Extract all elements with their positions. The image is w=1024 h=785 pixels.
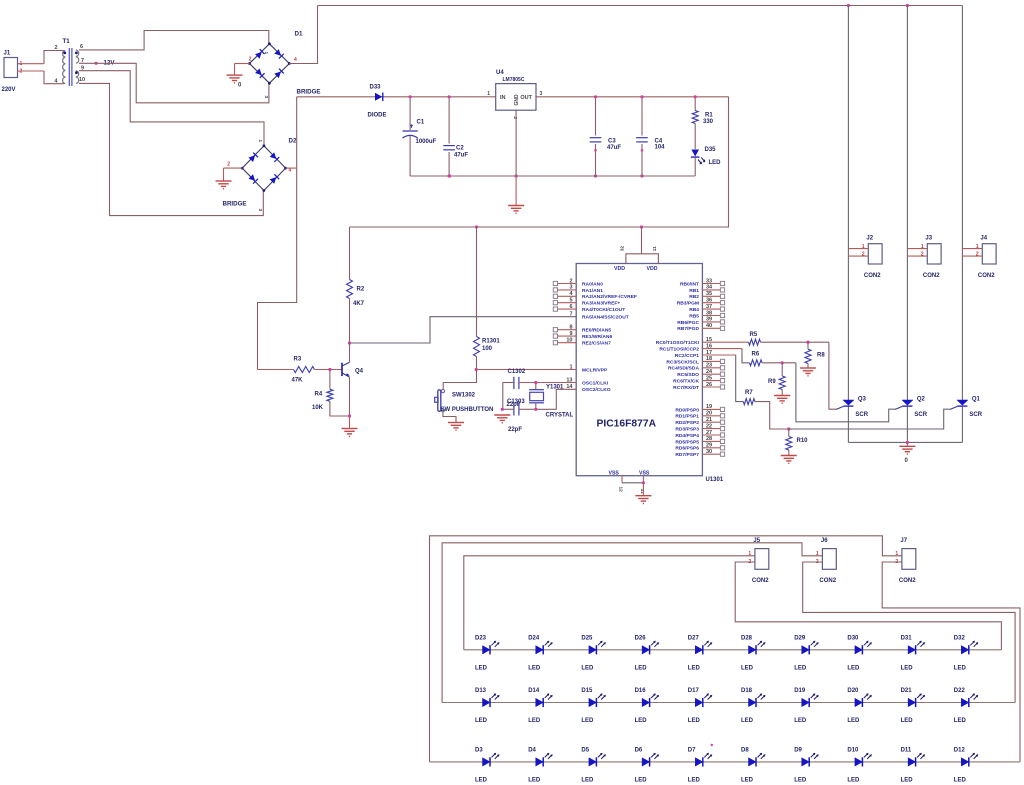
svg-text:J1: J1: [4, 51, 11, 57]
ground: [774, 395, 790, 397]
svg-text:37: 37: [706, 304, 712, 310]
transistor Q4: [341, 363, 343, 376]
svg-text:RD3/PSP3: RD3/PSP3: [675, 427, 699, 433]
svg-text:RA0/AN0: RA0/AN0: [582, 281, 603, 287]
svg-text:LED: LED: [688, 665, 701, 671]
svg-text:D27: D27: [688, 635, 700, 641]
svg-text:D32: D32: [954, 635, 966, 641]
svg-text:2: 2: [55, 45, 58, 51]
wire - +12V rail: [297, 96, 496, 98]
svg-text:6: 6: [569, 304, 572, 310]
wire: [286, 167, 297, 169]
LED D3: [483, 758, 491, 766]
svg-text:LED: LED: [475, 777, 488, 783]
svg-text:1000uF: 1000uF: [416, 139, 437, 145]
svg-text:Q3: Q3: [858, 397, 867, 403]
svg-text:20: 20: [706, 411, 712, 417]
svg-text:RB5: RB5: [689, 313, 699, 319]
wire: [44, 51, 64, 64]
LED D15: [589, 698, 597, 706]
svg-text:RA5/AN4/SS/C2OUT: RA5/AN4/SS/C2OUT: [582, 315, 629, 321]
ground: [781, 455, 797, 457]
wire - net A to J7: [430, 536, 902, 762]
pin 10 RE2/CS/AN7: [558, 342, 577, 344]
svg-text:LED: LED: [901, 777, 914, 783]
svg-text:R8: R8: [817, 353, 825, 359]
svg-text:10: 10: [79, 77, 85, 83]
svg-text:DIODE: DIODE: [368, 113, 387, 119]
ground 0: [906, 442, 908, 446]
wire - gate Q3: [829, 342, 837, 409]
wire - VDD feed: [350, 97, 729, 227]
svg-text:R10: R10: [797, 438, 809, 444]
svg-text:SW1302: SW1302: [452, 393, 476, 399]
svg-text:2: 2: [227, 162, 230, 168]
svg-text:1: 1: [862, 244, 865, 250]
svg-text:BRIDGE: BRIDGE: [223, 201, 247, 208]
pin 5 RA3/AN3/VREF+: [558, 302, 577, 304]
svg-text:LED: LED: [847, 718, 860, 724]
svg-text:2: 2: [569, 278, 572, 284]
svg-text:2: 2: [249, 57, 252, 63]
pin 6 RA4/T0CKI/C1OUT: [558, 308, 577, 310]
svg-text:LED: LED: [794, 777, 807, 783]
connector J5: [755, 549, 769, 570]
svg-text:RC1/T1OSI/CCP2: RC1/T1OSI/CCP2: [659, 347, 699, 353]
wire: [443, 412, 456, 423]
svg-text:VSS: VSS: [609, 471, 620, 477]
junction mark: [711, 744, 713, 746]
svg-text:J2: J2: [866, 236, 873, 242]
svg-text:R6: R6: [752, 352, 760, 358]
pin 37 RB4: [702, 308, 720, 310]
svg-text:RB0/INT: RB0/INT: [680, 281, 699, 287]
pin 23 RC4/SDI/SDA: [702, 367, 720, 369]
svg-text:RD7/PSP7: RD7/PSP7: [675, 452, 699, 458]
svg-text:1: 1: [748, 551, 751, 557]
ground: [223, 168, 225, 181]
svg-text:LED: LED: [794, 665, 807, 671]
wire - top rail: [318, 5, 963, 7]
svg-text:23: 23: [706, 363, 712, 369]
svg-text:D26: D26: [635, 635, 647, 641]
svg-text:J4: J4: [980, 236, 987, 242]
LED D30: [855, 646, 863, 654]
svg-text:1: 1: [976, 244, 979, 250]
LED D35: [691, 150, 699, 157]
svg-text:25: 25: [706, 375, 712, 381]
svg-text:24: 24: [706, 369, 713, 375]
svg-text:OSC1/CLKI: OSC1/CLKI: [582, 380, 609, 386]
svg-text:SW PUSHBUTTON: SW PUSHBUTTON: [441, 407, 494, 413]
svg-text:D30: D30: [847, 635, 859, 641]
svg-text:R9: R9: [768, 379, 776, 385]
svg-text:C1: C1: [417, 120, 425, 126]
svg-text:SCR: SCR: [969, 412, 982, 418]
svg-text:D14: D14: [528, 688, 540, 694]
svg-text:18: 18: [706, 356, 712, 362]
svg-text:CON2: CON2: [819, 578, 836, 584]
LED D7: [695, 758, 703, 766]
wire - column J2: [847, 6, 849, 401]
pin 33 RB0/INT: [702, 283, 720, 285]
LED D31: [908, 646, 916, 654]
capacitor C1302: [513, 377, 515, 389]
svg-text:RC7/RX/DT: RC7/RX/DT: [673, 385, 699, 391]
pin 29 RD6/PSP6: [702, 447, 720, 449]
svg-text:LED: LED: [528, 665, 541, 671]
svg-text:CRYSTAL: CRYSTAL: [546, 413, 574, 419]
svg-text:7: 7: [569, 312, 572, 318]
svg-text:35: 35: [706, 291, 712, 297]
ground: [800, 367, 816, 369]
connector J6: [822, 549, 836, 570]
svg-text:R7: R7: [745, 390, 753, 396]
resistor R3: [258, 369, 294, 371]
svg-text:22: 22: [706, 423, 712, 429]
wire: [79, 83, 263, 215]
capacitor C1: [409, 97, 411, 130]
svg-text:330: 330: [703, 119, 714, 125]
pin 8 RE0/RD/AN5: [558, 329, 577, 331]
svg-text:D15: D15: [581, 688, 593, 694]
resistor R2: [349, 227, 351, 280]
svg-text:2: 2: [921, 252, 924, 258]
svg-text:4: 4: [294, 57, 297, 63]
svg-text:RE0/RD/AN5: RE0/RD/AN5: [582, 328, 611, 334]
capacitor C2: [448, 97, 450, 144]
svg-text:D3: D3: [475, 747, 483, 753]
bridge rectifier D1: [250, 44, 290, 83]
LED D16: [642, 698, 650, 706]
LED D24: [536, 646, 544, 654]
svg-text:8: 8: [569, 325, 572, 331]
wire - MCLR: [477, 369, 577, 371]
connector J2: [868, 244, 882, 264]
svg-text:RA3/AN3/VREF+: RA3/AN3/VREF+: [582, 301, 620, 307]
svg-text:RE1/WR/AN6: RE1/WR/AN6: [582, 334, 612, 340]
svg-text:27: 27: [706, 430, 712, 436]
LED D17: [695, 698, 703, 706]
svg-text:104: 104: [655, 145, 666, 151]
svg-text:22pF: 22pF: [508, 427, 522, 433]
wire - VDD bracket to U1301: [641, 227, 643, 254]
svg-text:33: 33: [706, 278, 712, 284]
svg-text:LED: LED: [847, 777, 860, 783]
LED D22: [961, 698, 969, 706]
connector J4: [982, 244, 996, 264]
svg-text:Q2: Q2: [917, 397, 926, 403]
wire: [79, 31, 269, 50]
svg-text:47K: 47K: [292, 378, 304, 384]
LED D19: [802, 698, 810, 706]
svg-text:D33: D33: [370, 85, 382, 91]
svg-text:1: 1: [487, 91, 490, 97]
svg-text:SCR: SCR: [855, 412, 868, 418]
pin 30 RD7/PSP7: [702, 453, 720, 455]
wire: [502, 383, 504, 410]
bridge rectifier D2: [242, 146, 285, 191]
svg-text:BRIDGE: BRIDGE: [297, 89, 321, 96]
pin 38 RB5: [702, 315, 720, 317]
connector J3: [927, 244, 941, 264]
svg-text:19: 19: [706, 404, 712, 410]
LED D25: [589, 646, 597, 654]
svg-text:RD2/PSP2: RD2/PSP2: [675, 420, 699, 426]
wire: [443, 370, 476, 390]
svg-text:RE2/CS/AN7: RE2/CS/AN7: [582, 341, 611, 347]
svg-text:1: 1: [816, 551, 819, 557]
svg-text:RA2/AN2/VREF-/CVREF: RA2/AN2/VREF-/CVREF: [582, 294, 637, 300]
svg-text:4K7: 4K7: [353, 301, 365, 307]
pin 2 RA0/AN0: [558, 283, 577, 285]
svg-text:29: 29: [706, 443, 712, 449]
svg-text:6: 6: [80, 44, 83, 50]
svg-text:36: 36: [706, 298, 712, 304]
svg-text:14: 14: [566, 384, 573, 390]
resistor R1301: [476, 227, 478, 337]
wire: [349, 343, 351, 362]
svg-text:D28: D28: [741, 635, 753, 641]
ground 0: [234, 64, 236, 76]
svg-text:LED: LED: [528, 777, 541, 783]
pin 20 RD1/PSP1: [702, 415, 720, 417]
svg-text:1: 1: [569, 364, 572, 370]
svg-text:26: 26: [706, 382, 712, 388]
svg-text:D4: D4: [528, 747, 536, 753]
svg-text:3: 3: [263, 96, 269, 99]
svg-text:Q4: Q4: [355, 369, 364, 375]
svg-text:47uF: 47uF: [607, 145, 621, 151]
net label 12V: [95, 62, 98, 65]
svg-text:220V: 220V: [2, 87, 16, 93]
svg-text:100: 100: [482, 346, 493, 352]
svg-text:CON2: CON2: [752, 578, 769, 584]
svg-text:D21: D21: [901, 688, 913, 694]
pin 18 RC3/SCK/SCL: [702, 360, 720, 362]
wire: [289, 6, 317, 64]
capacitor C3: [595, 97, 597, 136]
connector J7: [902, 549, 916, 570]
wire - OSC2: [536, 389, 576, 409]
svg-text:RA4/T0CKI/C1OUT: RA4/T0CKI/C1OUT: [582, 307, 625, 313]
wire - column J4: [961, 6, 963, 401]
svg-text:LED: LED: [581, 718, 594, 724]
resistor R5: [702, 341, 748, 343]
wire: [735, 562, 1001, 650]
svg-text:D10: D10: [847, 747, 859, 753]
LED D9: [802, 758, 810, 766]
svg-text:R1: R1: [705, 113, 713, 119]
svg-text:13: 13: [566, 377, 572, 383]
svg-text:LED: LED: [954, 718, 967, 724]
wire - net C to J5: [464, 556, 755, 650]
svg-text:5: 5: [569, 298, 572, 304]
ground: [494, 414, 510, 416]
svg-text:CON2: CON2: [923, 273, 940, 279]
LED D11: [908, 758, 916, 766]
svg-text:D31: D31: [901, 635, 913, 641]
connector J1: [4, 58, 18, 78]
svg-text:RB7/PGD: RB7/PGD: [677, 326, 699, 332]
svg-text:U1301: U1301: [706, 477, 724, 483]
svg-text:RC2/CCP1: RC2/CCP1: [675, 353, 699, 359]
pin 22 RD3/PSP3: [702, 428, 720, 430]
LED D18: [749, 698, 757, 706]
svg-text:LED: LED: [847, 665, 860, 671]
SCR Q2: [902, 400, 913, 405]
svg-text:D20: D20: [847, 688, 859, 694]
pin 25 RC6/TX/CK: [702, 380, 720, 382]
svg-text:LED: LED: [635, 665, 648, 671]
svg-text:2: 2: [862, 252, 865, 258]
pin 9 RE1/WR/AN6: [558, 335, 577, 337]
svg-text:LED: LED: [635, 718, 648, 724]
svg-text:R2: R2: [357, 287, 365, 293]
svg-text:RD4/PSP4: RD4/PSP4: [675, 433, 699, 439]
LED D26: [642, 646, 650, 654]
wire - net B to J6: [442, 543, 822, 703]
wire: [258, 97, 297, 370]
svg-text:LED: LED: [635, 777, 648, 783]
LED D14: [536, 698, 544, 706]
svg-text:D17: D17: [688, 688, 700, 694]
svg-text:38: 38: [706, 310, 712, 316]
wire: [349, 377, 351, 416]
svg-text:1: 1: [895, 551, 898, 557]
ground: [448, 422, 464, 424]
wire: [847, 406, 849, 442]
svg-text:LM7805C: LM7805C: [503, 77, 525, 83]
svg-text:D16: D16: [635, 688, 647, 694]
svg-text:LED: LED: [741, 777, 754, 783]
svg-text:D19: D19: [794, 688, 806, 694]
svg-text:LED: LED: [901, 665, 914, 671]
pin 4 RA2/AN2/VREF-/CVREF: [558, 295, 577, 297]
svg-text:R4: R4: [315, 392, 323, 398]
pin 26 RC7/RX/DT: [702, 386, 720, 388]
svg-text:22pF: 22pF: [507, 402, 521, 408]
svg-text:D7: D7: [688, 747, 696, 753]
resistor R4: [329, 370, 331, 390]
pin 3 RA1/AN1: [558, 289, 577, 291]
svg-text:LED: LED: [901, 718, 914, 724]
svg-text:D35: D35: [705, 147, 717, 153]
svg-text:RD1/PSP1: RD1/PSP1: [675, 414, 699, 420]
LED D27: [695, 646, 703, 654]
svg-text:21: 21: [706, 417, 712, 423]
svg-text:IN: IN: [500, 95, 506, 101]
svg-text:D5: D5: [581, 747, 589, 753]
capacitor C4: [641, 97, 643, 136]
wire: [44, 71, 64, 84]
svg-text:MCLR/VPP: MCLR/VPP: [582, 367, 608, 373]
pin 21 RD2/PSP2: [702, 421, 720, 423]
SCR Q3: [843, 400, 854, 405]
crystal Y1301: [535, 383, 537, 390]
svg-text:D24: D24: [528, 635, 540, 641]
LED D10: [855, 758, 863, 766]
svg-text:D13: D13: [475, 688, 487, 694]
pin 36 RB3/PGM: [702, 302, 720, 304]
LED D4: [536, 758, 544, 766]
wire: [79, 63, 269, 103]
svg-text:31: 31: [639, 489, 645, 495]
svg-text:32: 32: [620, 246, 626, 252]
wire: [18, 70, 45, 72]
svg-text:RB2: RB2: [689, 294, 699, 300]
wire: [882, 562, 1020, 762]
svg-text:D11: D11: [901, 747, 912, 753]
LED D23: [483, 646, 491, 654]
svg-text:D8: D8: [741, 747, 749, 753]
pin 24 RC5/SDO: [702, 373, 720, 375]
svg-text:12: 12: [618, 487, 624, 493]
svg-text:Q1: Q1: [972, 397, 981, 403]
svg-text:47uF: 47uF: [454, 153, 468, 159]
svg-text:RB4: RB4: [689, 307, 699, 313]
svg-text:11: 11: [652, 246, 658, 251]
svg-text:D9: D9: [794, 747, 802, 753]
LED D28: [749, 646, 757, 654]
resistor R10: [788, 429, 790, 437]
svg-text:C3: C3: [608, 139, 616, 145]
IC U1301 PIC16F877A: [576, 264, 702, 476]
svg-text:RB3/PGM: RB3/PGM: [677, 301, 699, 307]
svg-text:LED: LED: [954, 777, 967, 783]
svg-text:39: 39: [706, 317, 712, 323]
svg-text:D6: D6: [635, 747, 643, 753]
wire - ground rail: [410, 175, 695, 177]
svg-text:VDD: VDD: [614, 266, 625, 272]
pin 28 RD5/PSP5: [702, 440, 720, 442]
ground: [642, 483, 644, 496]
pin 39 RB6/PGC: [702, 321, 720, 323]
LED D29: [802, 646, 810, 654]
pushbutton SW1302: [441, 390, 444, 393]
svg-text:LED: LED: [528, 718, 541, 724]
pin 34 RB1: [702, 289, 720, 291]
resistor R7: [702, 354, 735, 356]
svg-text:J6: J6: [821, 538, 828, 544]
svg-text:40: 40: [706, 323, 712, 329]
svg-text:2: 2: [512, 117, 518, 120]
svg-text:VDD: VDD: [647, 266, 658, 272]
LED D13: [483, 698, 491, 706]
svg-text:CON2: CON2: [864, 273, 881, 279]
wire - cathode rail: [848, 441, 962, 443]
svg-text:LED: LED: [741, 718, 754, 724]
SCR Q1: [957, 400, 968, 405]
pin 19 RD0/PSP0: [702, 408, 720, 410]
svg-text:LED: LED: [475, 718, 488, 724]
svg-text:D1: D1: [295, 31, 303, 38]
wire - VSS pins to ground: [621, 476, 623, 483]
resistor R6: [702, 348, 742, 350]
svg-text:SCR: SCR: [914, 412, 927, 418]
svg-text:RC3/SCK/SCL: RC3/SCK/SCL: [666, 359, 699, 365]
LED D5: [589, 758, 597, 766]
svg-text:LED: LED: [581, 777, 594, 783]
svg-text:LED: LED: [794, 718, 807, 724]
svg-text:34: 34: [706, 285, 713, 291]
svg-text:OUT: OUT: [520, 95, 532, 101]
wire: [79, 71, 264, 146]
svg-text:RD5/PSP5: RD5/PSP5: [675, 439, 699, 445]
svg-text:D25: D25: [581, 635, 593, 641]
svg-text:J3: J3: [925, 236, 932, 242]
svg-text:GND: GND: [514, 94, 520, 106]
